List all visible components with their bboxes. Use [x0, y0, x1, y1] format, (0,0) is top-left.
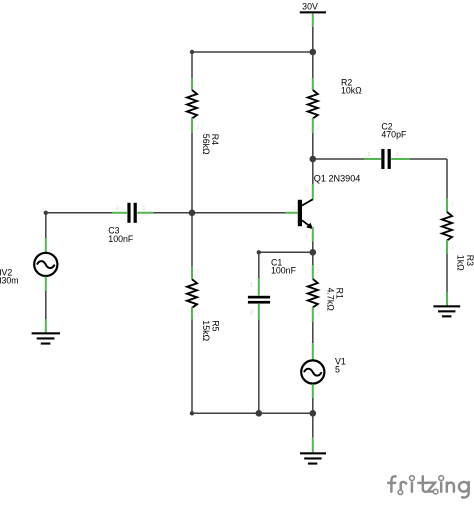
svg-text:1: 1 — [143, 206, 146, 212]
capacitor C1 100nF — [248, 258, 297, 320]
pin labels Q1 — [197, 82, 455, 318]
svg-text:1: 1 — [305, 234, 308, 240]
svg-text:470pF: 470pF — [381, 130, 407, 140]
svg-text:1: 1 — [451, 202, 454, 208]
pin labels C3 — [116, 152, 399, 316]
resistor R5 — [187, 266, 220, 341]
wire emitter junction to R1 — [312, 252, 314, 265]
svg-text:56kΩ: 56kΩ — [201, 134, 211, 155]
ground (R3) — [433, 292, 460, 317]
capacitor C3 100nF — [108, 203, 153, 244]
node C1 bottom junction — [255, 410, 262, 417]
wire V2 top corner — [45, 213, 47, 238]
resistor R2 — [308, 78, 362, 133]
wire C3 to base — [154, 212, 286, 214]
svg-text:100nF: 100nF — [108, 234, 134, 244]
wire V2 to ground — [45, 291, 47, 319]
wire top rail to R2 — [312, 52, 314, 78]
resistor R3 — [442, 198, 474, 271]
wire R4 to mid junction — [191, 133, 193, 213]
wire 30V to top junction — [312, 27, 314, 52]
svg-text:3: 3 — [305, 188, 308, 194]
svg-text:1: 1 — [317, 82, 320, 88]
capacitor C2 470pF — [364, 122, 410, 169]
svg-text:1: 1 — [250, 283, 253, 289]
wire R2 to collector junction — [312, 133, 314, 159]
svg-text:1: 1 — [197, 82, 200, 88]
ground (V1) — [300, 438, 326, 465]
svg-text:2: 2 — [250, 310, 253, 316]
svg-text:5: 5 — [335, 364, 340, 374]
svg-text:2: 2 — [396, 152, 399, 158]
wire emitter junction to C1 — [259, 251, 313, 253]
svg-text:2: 2 — [317, 125, 320, 131]
svg-text:30m: 30m — [2, 275, 19, 285]
svg-text:Q1 2N3904: Q1 2N3904 — [314, 173, 361, 183]
svg-text:1: 1 — [368, 152, 371, 158]
node bottom-left bend — [190, 411, 194, 415]
wire bottom junction to ground — [312, 413, 314, 437]
svg-text:4.7kΩ: 4.7kΩ — [325, 288, 335, 312]
wire R5 top — [191, 213, 193, 266]
svg-text:2: 2 — [116, 206, 119, 212]
svg-text:2: 2 — [451, 245, 454, 251]
voltage source V1 — [301, 343, 346, 398]
node V2 corner bend — [44, 211, 48, 215]
wire bottom rail — [192, 412, 313, 414]
svg-text:1: 1 — [197, 269, 200, 275]
ground (V2) — [32, 319, 60, 345]
svg-text:30V: 30V — [302, 2, 318, 12]
wire R1 to V1 — [312, 322, 314, 343]
wire V1 to bottom junction — [312, 398, 314, 413]
transistor Q1 2N3904 — [285, 173, 360, 241]
node top junction — [310, 49, 317, 56]
wire collector junction to C2 — [313, 158, 364, 160]
node top-left bend — [190, 50, 194, 54]
svg-text:1kΩ: 1kΩ — [456, 255, 466, 271]
power symbol 30V — [300, 2, 326, 27]
wire corner down to R3 — [446, 159, 448, 198]
wire C1 top — [258, 252, 260, 278]
svg-text:2: 2 — [293, 206, 296, 212]
svg-text:2: 2 — [317, 312, 320, 318]
wire C2 to R3 corner — [410, 158, 447, 160]
wire R3 to ground — [446, 254, 448, 292]
node emitter junction — [310, 249, 317, 256]
wire C1 to bottom rail — [258, 320, 260, 413]
node V1 bottom junction — [310, 410, 317, 417]
svg-text:10kΩ: 10kΩ — [341, 86, 362, 96]
node mid junction — [189, 210, 196, 217]
resistor R1 — [308, 265, 345, 322]
svg-text:15kΩ: 15kΩ — [201, 320, 211, 341]
wire top rail to R4 — [191, 52, 193, 78]
node C1 top bend — [257, 250, 261, 254]
svg-text:2: 2 — [197, 312, 200, 318]
voltage source V2 — [0, 238, 57, 291]
wire V2 to C3 — [46, 212, 112, 214]
svg-text:1: 1 — [317, 269, 320, 275]
svg-text:100nF: 100nF — [271, 266, 297, 276]
node collector junction — [310, 156, 317, 163]
fritzing logo — [388, 476, 469, 498]
resistor R4 — [187, 78, 220, 155]
wire top rail — [192, 51, 313, 53]
wire collector pin upper — [312, 159, 314, 184]
wire emitter to junction — [312, 242, 314, 253]
svg-text:2: 2 — [197, 125, 200, 131]
wire R5 to bottom rail — [191, 320, 193, 414]
